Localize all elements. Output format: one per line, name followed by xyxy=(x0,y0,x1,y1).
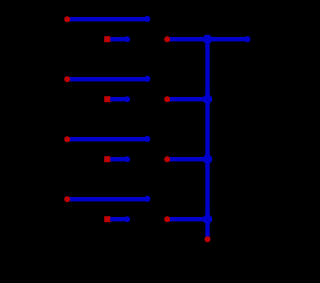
node row2 stub unconnected endpoint (box cue) xyxy=(104,96,110,102)
junction bus row4 xyxy=(203,215,212,224)
node row2 left unconnected endpoint xyxy=(64,76,70,82)
node row3 left unconnected endpoint xyxy=(64,136,70,142)
junction dot row2 left wire end xyxy=(144,76,150,82)
node row4 stub unconnected endpoint (box cue) xyxy=(104,216,110,222)
wire net row3 left xyxy=(67,137,147,141)
junction dot row4 left wire end xyxy=(144,196,150,202)
wire row4 stub xyxy=(107,217,127,221)
wire row1 right to bus xyxy=(167,37,207,41)
node row4 right unconnected endpoint xyxy=(164,216,170,222)
junction bus row1 xyxy=(203,35,212,44)
wire row4 right to bus xyxy=(167,217,207,221)
wire row1 stub xyxy=(107,37,127,41)
node row1 right unconnected endpoint xyxy=(164,36,170,42)
junction dot row3 left wire end xyxy=(144,136,150,142)
wire net row2 left xyxy=(67,77,147,81)
node row3 stub unconnected endpoint (box cue) xyxy=(104,156,110,162)
node row1 stub unconnected endpoint (box cue) xyxy=(104,36,110,42)
wire row3 stub xyxy=(107,157,127,161)
node row4 left unconnected endpoint xyxy=(64,196,70,202)
node row2 right unconnected endpoint xyxy=(164,96,170,102)
junction dot row4 stub end xyxy=(124,216,130,222)
node bus bottom unconnected endpoint xyxy=(205,236,211,242)
wire row2 stub xyxy=(107,97,127,101)
junction dot row2 stub end xyxy=(124,96,130,102)
junction dot row3 stub end xyxy=(124,156,130,162)
wire row2 right to bus xyxy=(167,97,207,101)
wire top right from bus xyxy=(207,37,247,41)
junction bus row3 xyxy=(203,155,212,164)
junction bus row2 xyxy=(203,95,212,104)
junction dot row1 left wire end xyxy=(144,16,150,22)
node row1 left unconnected endpoint xyxy=(64,16,70,22)
wire net row4 left xyxy=(67,197,147,201)
node row3 right unconnected endpoint xyxy=(164,156,170,162)
junction dot top right wire end xyxy=(244,36,250,42)
wire vertical bus xyxy=(205,39,209,239)
wire net row1 left xyxy=(67,17,147,21)
wire row3 right to bus xyxy=(167,157,207,161)
junction dot row1 stub end xyxy=(124,36,130,42)
